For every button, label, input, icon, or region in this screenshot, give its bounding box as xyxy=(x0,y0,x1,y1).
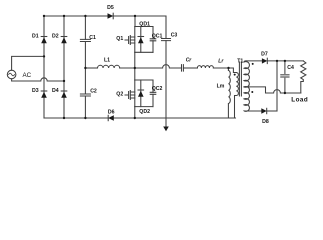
diode QD1 xyxy=(138,27,144,53)
transistor Q1 xyxy=(125,27,135,53)
diode D1 xyxy=(41,37,47,44)
svg-text:D4: D4 xyxy=(52,88,59,94)
svg-text:QC2: QC2 xyxy=(152,86,163,92)
capacitor C1 branch xyxy=(84,16,86,118)
wire Q1 group bottom bar xyxy=(135,51,153,53)
transformer T1 secondary bottom winding xyxy=(244,87,249,112)
svg-text:QD1: QD1 xyxy=(139,22,150,28)
capacitor C2 xyxy=(80,94,90,96)
wire bridge left branch x44 xyxy=(43,16,45,118)
node junction dots xyxy=(43,15,286,119)
wire Q2 group bottom bar xyxy=(135,106,153,108)
capacitor C3 branch xyxy=(165,16,167,118)
svg-text:D6: D6 xyxy=(108,110,115,116)
svg-text:L1: L1 xyxy=(104,58,110,64)
capacitor QC1 xyxy=(150,27,156,53)
svg-text:Load: Load xyxy=(291,97,308,104)
svg-text:D8: D8 xyxy=(262,119,269,125)
svg-text:C3: C3 xyxy=(171,32,178,38)
wire rectifier junction vertical xyxy=(276,61,278,111)
svg-text:Lr: Lr xyxy=(218,58,224,64)
transistor Q2 xyxy=(125,80,135,107)
resistor Load xyxy=(301,61,306,93)
diode D7 xyxy=(262,58,267,63)
transformer T1 primary winding xyxy=(235,73,239,119)
wire bridge right branch x64 xyxy=(63,16,65,118)
wire Q2 bottom connector xyxy=(134,107,136,118)
wire secondary bottom lead xyxy=(246,110,261,112)
svg-text:T1: T1 xyxy=(237,59,243,65)
svg-text:C1: C1 xyxy=(89,35,96,41)
svg-text:C4: C4 xyxy=(287,65,294,71)
node secondary top phase dot xyxy=(252,63,254,65)
svg-text:D1: D1 xyxy=(32,34,39,40)
node primary phase dot xyxy=(234,74,236,76)
inductor Lm xyxy=(228,68,230,118)
svg-text:QD2: QD2 xyxy=(139,109,150,115)
wire top rail xyxy=(44,15,166,17)
diode D3 xyxy=(41,91,47,98)
wire secondary top lead xyxy=(246,60,262,62)
wire output top rail xyxy=(267,60,303,62)
diode D2 xyxy=(61,37,67,44)
wire D8 to junction xyxy=(267,110,277,112)
inductor L1 xyxy=(98,65,120,68)
capacitor Cr xyxy=(182,65,184,71)
node secondary bottom phase dot xyxy=(251,91,253,93)
wire mid rail with hop over C3 branch xyxy=(120,65,182,68)
wire Q1 top connector xyxy=(134,16,136,27)
wire AC bottom lead with hop over x44 xyxy=(12,78,64,81)
diode QD2 xyxy=(138,80,144,107)
capacitor C3 xyxy=(162,39,171,41)
wire midpoint vertical xyxy=(134,52,136,80)
capacitor QC2 xyxy=(150,80,156,107)
wire bottom rail xyxy=(44,117,236,119)
wire mid rail left xyxy=(85,67,97,69)
svg-text:C2: C2 xyxy=(90,89,97,95)
svg-text:AC: AC xyxy=(23,72,32,79)
wire to transformer xyxy=(213,68,236,73)
wire xyxy=(183,67,197,69)
diode D6 xyxy=(108,115,114,120)
diode D8 xyxy=(261,108,266,113)
diode D5 xyxy=(108,13,114,19)
svg-text:Lm: Lm xyxy=(217,84,225,90)
svg-text:Q2: Q2 xyxy=(116,91,123,97)
transformer T1 secondary top winding xyxy=(244,61,249,87)
wire AC top lead xyxy=(12,56,44,70)
capacitor C1 xyxy=(80,39,90,41)
svg-text:Cr: Cr xyxy=(186,58,193,64)
svg-text:D2: D2 xyxy=(52,34,59,40)
svg-text:D3: D3 xyxy=(32,88,39,94)
svg-text:D7: D7 xyxy=(261,51,268,57)
ground xyxy=(163,118,169,131)
wire center tap with hop xyxy=(244,87,301,93)
AC source xyxy=(7,70,16,79)
inductor Lr xyxy=(197,66,213,68)
svg-text:QC1: QC1 xyxy=(152,34,163,40)
capacitor C4 xyxy=(281,61,289,93)
wire Q1 group top bar xyxy=(135,26,153,28)
wire Q2 group top bar xyxy=(135,79,153,81)
diode D4 xyxy=(61,91,67,98)
transformer T1 core xyxy=(239,62,241,96)
svg-text:Q1: Q1 xyxy=(116,36,123,42)
svg-text:D5: D5 xyxy=(107,5,114,11)
